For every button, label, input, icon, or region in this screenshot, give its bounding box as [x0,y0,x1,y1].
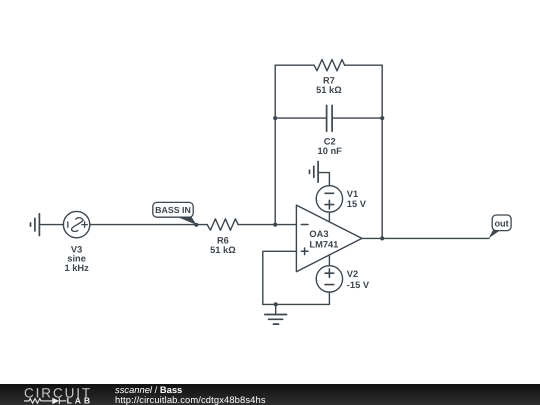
wire C2 rail right [332,117,382,119]
wire output [362,237,489,239]
node output junction [380,236,384,240]
node C2 right [380,116,384,120]
svg-text:R7: R7 [323,76,335,86]
op-amp minus input sign [301,224,308,226]
wire ground to V3 [39,224,63,226]
op-amp plus input sign [301,248,308,255]
wire top rail right [345,64,383,66]
wire ground stub [275,304,277,314]
svg-text:-15 V: -15 V [347,280,370,290]
node bottom ground junction [274,302,278,306]
V3 sine glyph [72,218,84,232]
footer bar [0,384,540,405]
wire V2 to bottom rail [328,292,330,304]
svg-text:15 V: 15 V [347,199,367,209]
wire ground to V1 [318,173,329,186]
capacitor C2 plates [327,105,333,131]
wire C2 rail left [275,117,326,119]
svg-text:BASS IN: BASS IN [155,205,191,215]
node left rail / input [273,223,277,227]
ground G1 (left of V3, rotated) [31,214,40,236]
svg-text:LAB: LAB [67,395,93,405]
svg-text:C2: C2 [324,136,336,146]
V3 minus sign [67,222,69,227]
V1 plus sign [325,200,334,209]
CircuitLab logo [0,384,100,405]
source V2 circle [316,266,342,292]
V2 plus sign [325,269,334,278]
wire V3 to R6 [90,224,208,226]
svg-text:51 kΩ: 51 kΩ [210,245,236,255]
wire op-amp bottom to V2 [328,255,330,266]
source V3 circle [63,211,89,237]
wire right rail vertical [381,65,383,238]
wire left feedback rail vertical [274,65,276,224]
svg-text:51 kΩ: 51 kΩ [316,85,342,95]
node C2 left [273,116,277,120]
V2 minus sign [325,284,334,286]
node BASS IN junction [194,223,198,227]
resistor R6 [207,219,238,230]
flag out [489,215,511,238]
ground G3 (bottom) [265,315,287,325]
svg-text:OA3: OA3 [309,229,328,239]
wire V1 to op-amp top [328,212,330,222]
svg-text:V1: V1 [347,189,358,199]
svg-text:R6: R6 [217,236,229,246]
svg-text:LM741: LM741 [309,239,338,249]
svg-text:out: out [494,218,508,228]
svg-text:V2: V2 [347,269,358,279]
source V1 circle [316,186,342,212]
flag BASS IN [153,202,197,224]
V3 plus sign [82,222,87,227]
wire R6 to op-amp [238,224,296,226]
wire top rail left [275,64,314,66]
V1 minus sign [325,192,334,194]
svg-text:10 nF: 10 nF [318,146,343,156]
wire bottom rail [263,303,330,305]
wire left vertical to + input [263,251,297,304]
resistor R7 [314,60,345,71]
svg-text:1 kHz: 1 kHz [64,263,89,273]
ground G2 (above V1, rotated) [310,162,319,183]
op-amp OA3 triangle [296,205,362,272]
